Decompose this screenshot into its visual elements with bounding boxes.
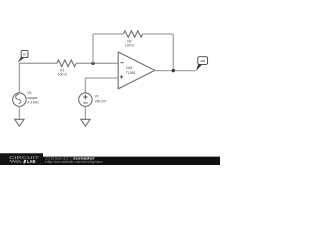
wire: feedback top right segment <box>143 33 174 35</box>
svg-text:square: square <box>27 96 37 100</box>
svg-text:in: in <box>23 53 26 57</box>
svg-text:100 Ω: 100 Ω <box>125 44 135 48</box>
wire: feedback top left segment <box>93 33 123 35</box>
op-amp minus sign <box>121 62 124 64</box>
ground under V1 <box>81 119 90 126</box>
logo resistor zigzag <box>9 160 21 162</box>
svg-text:750 mV: 750 mV <box>95 99 107 103</box>
wire: V3 to ground <box>18 106 20 119</box>
wire: feedback right vertical down to output <box>172 34 174 71</box>
op-amp OA1 triangle <box>118 52 155 89</box>
op-amp plus sign <box>120 75 123 78</box>
wire: non-inverting input from V1 <box>85 78 118 93</box>
svg-text:LAB: LAB <box>27 159 35 164</box>
node flag out <box>196 57 207 71</box>
svg-text:4.3 kHz: 4.3 kHz <box>27 101 39 105</box>
wire: feedback left vertical <box>92 34 94 63</box>
wire: V1 to ground <box>84 106 86 119</box>
logo bolt <box>23 160 26 163</box>
svg-text:V1: V1 <box>95 95 99 99</box>
voltage source V1 (DC 750 mV) <box>79 93 92 106</box>
ground under V3 <box>15 119 24 126</box>
svg-text:100 Ω: 100 Ω <box>58 73 68 77</box>
svg-text:V3: V3 <box>27 91 31 95</box>
svg-text:OA1: OA1 <box>126 66 133 70</box>
svg-text:TL081: TL081 <box>126 71 136 75</box>
wire: R1 to op-amp inverting input <box>76 62 118 64</box>
svg-text:out: out <box>200 59 205 63</box>
watermark bar <box>0 157 220 165</box>
voltage source V3 (square function generator) <box>13 93 26 106</box>
wire: in corner to R1 (main top wire) <box>19 63 57 93</box>
watermark logo tab <box>0 153 43 165</box>
node junction dot on output <box>172 69 175 72</box>
resistor R2 <box>123 31 142 38</box>
resistor R1 <box>57 60 76 67</box>
node flag in <box>18 50 28 62</box>
wire: op-amp output <box>155 70 197 72</box>
node junction dot on inverting input <box>91 62 94 65</box>
svg-text:http://circuitlab.com/c/v5g4am: http://circuitlab.com/c/v5g4am <box>45 160 103 164</box>
